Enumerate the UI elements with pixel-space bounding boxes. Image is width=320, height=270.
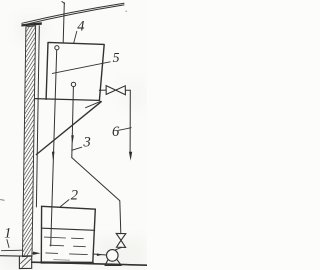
pipe A (into tank) [51, 50, 57, 246]
water surface [42, 228, 94, 230]
svg-text:1: 1 [4, 226, 11, 242]
hose to pump [72, 158, 121, 234]
flow arrow B [71, 135, 74, 143]
base hatching [21, 257, 28, 264]
chute upper lip [86, 101, 101, 108]
pump base [105, 259, 121, 265]
hoist cable (item 4 line) [63, 3, 64, 43]
speck near jib tip [126, 11, 127, 12]
stub valve to pump [115, 247, 122, 250]
chute hypotenuse [36, 102, 101, 155]
ground line [32, 262, 147, 265]
hoist box (cabin) [46, 42, 104, 100]
svg-text:6: 6 [112, 124, 120, 140]
water dashes [44, 237, 87, 260]
suction line tank to pump [93, 254, 107, 255]
svg-text:5: 5 [113, 50, 120, 65]
wall base block [19, 256, 31, 269]
leader 2 [60, 200, 69, 207]
flow arrow suction [97, 253, 103, 256]
ground line left [0, 255, 19, 257]
arrow line 6 [129, 152, 132, 161]
pulley circle B [71, 82, 75, 86]
cable top tick [62, 2, 65, 4]
wall column [23, 26, 36, 257]
pulley circle A [55, 46, 59, 50]
valve V1 (horizontal bowtie) [106, 86, 125, 95]
pipe B [72, 87, 74, 158]
leader 1 [2, 240, 23, 251]
jib (double inclined line) [22, 3, 124, 25]
arrow 1 into tank [33, 252, 41, 255]
wall cap [21, 22, 41, 26]
drop line 6 [129, 90, 131, 152]
box bottom platform [35, 99, 100, 101]
valve V2 (vertical bowtie) [116, 233, 126, 247]
leader 3 [72, 147, 82, 150]
stub box to valve [99, 89, 106, 91]
tank bottom thick [41, 261, 93, 264]
stray mark at left edge [0, 199, 4, 202]
svg-text:3: 3 [83, 135, 91, 151]
flow arrow A [52, 152, 55, 162]
guide rail [36, 26, 39, 207]
svg-text:4: 4 [77, 18, 84, 34]
leader 6 [119, 128, 132, 131]
leader 5 [52, 62, 110, 74]
stub valve to drop line [125, 89, 130, 91]
tank [41, 206, 95, 262]
leader 4 [74, 31, 77, 42]
pump circle [107, 250, 119, 262]
svg-text:2: 2 [71, 188, 78, 204]
